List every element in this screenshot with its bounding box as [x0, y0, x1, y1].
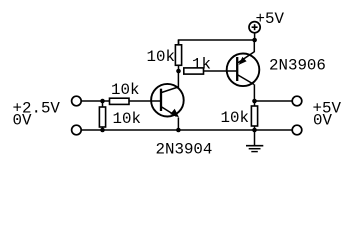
resistor R4 1k (horizontal): [184, 68, 204, 74]
svg-text:2N3906: 2N3906: [269, 57, 326, 75]
wire: bottom rail: [82, 129, 292, 131]
resistor R3 10k (vertical, collector load): [178, 40, 180, 45]
svg-text:0V: 0V: [13, 112, 32, 130]
wire: Q1 collector up to node C: [177, 71, 179, 88]
terminal OUT- (right bottom): [292, 125, 302, 135]
transistor Q2 2N3906 (PNP): [227, 52, 260, 86]
terminal IN- (left bottom): [72, 125, 82, 135]
svg-text:10k: 10k: [113, 110, 141, 128]
node C (junction dot below R3): [176, 69, 181, 74]
wire: Q2 emitter up to node D: [253, 40, 255, 52]
wire: Q1 emitter down to bottom rail: [177, 118, 179, 131]
resistor R5 10k (vertical, pulldown): [254, 101, 256, 106]
transistor Q1 2N3904 (NPN): [151, 84, 184, 118]
terminal IN+ (left top): [72, 96, 82, 106]
resistor R2 10k (vertical, between inputs): [102, 101, 104, 107]
wire: R1 to Q1 base: [129, 100, 162, 102]
ground: [246, 130, 263, 152]
resistor R1 10k (horizontal, base series): [110, 98, 130, 104]
svg-text:10k: 10k: [111, 81, 139, 99]
svg-text:10k: 10k: [147, 48, 175, 66]
node (junction dot Q1 emitter / bottom rail): [176, 128, 181, 133]
wire: node E to output top terminal: [255, 100, 292, 102]
power +5V source symbol: [249, 22, 260, 40]
wire: top input to node A: [82, 100, 110, 102]
node F (junction dot bottom rail right): [252, 128, 257, 133]
wire: top rail: [179, 40, 255, 45]
svg-text:2N3904: 2N3904: [156, 141, 213, 159]
terminal OUT+ (right top): [292, 96, 302, 106]
wire: R4 to Q2 base: [204, 70, 238, 72]
node A (junction dot left top): [100, 99, 105, 104]
svg-text:0V: 0V: [313, 112, 332, 130]
svg-text:+5V: +5V: [256, 10, 285, 28]
svg-text:10k: 10k: [221, 109, 249, 127]
wire: Q2 collector down to node E: [253, 84, 255, 101]
node D (junction dot top rail): [252, 38, 257, 43]
node B (junction dot left bottom): [100, 128, 105, 133]
node E (junction dot collector/output): [252, 99, 257, 104]
